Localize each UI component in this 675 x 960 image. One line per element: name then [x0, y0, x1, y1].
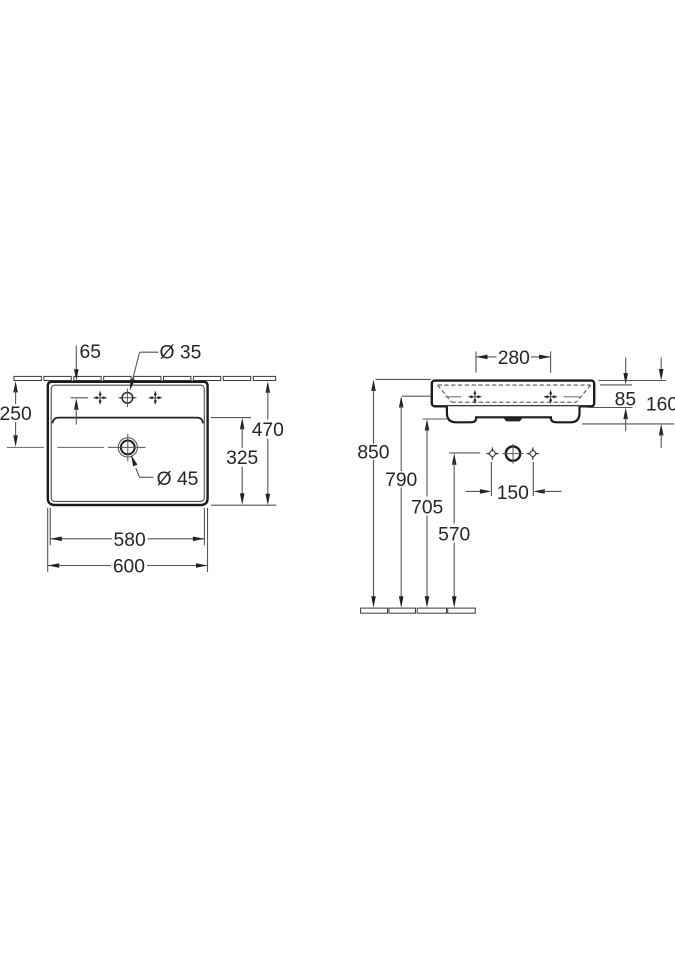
svg-text:580: 580 — [114, 530, 146, 551]
svg-text:Ø 35: Ø 35 — [160, 342, 202, 363]
drain hole Ø45 — [108, 434, 146, 462]
svg-text:65: 65 — [80, 342, 101, 363]
dimension 160 — [646, 358, 675, 449]
dimension 850 — [357, 379, 430, 607]
svg-text:325: 325 — [226, 448, 258, 469]
basin outer rim (top view) — [48, 382, 208, 505]
front view: basin rim band — [432, 381, 594, 407]
svg-text:160: 160 — [646, 395, 675, 416]
wall hatch (top view) — [14, 376, 276, 380]
dimension 705 — [411, 419, 446, 608]
front view: fixing hole cross right — [544, 390, 557, 403]
svg-text:150: 150 — [497, 483, 529, 504]
svg-text:Ø 45: Ø 45 — [157, 469, 199, 490]
dimension 470 — [211, 381, 284, 505]
dimension 325 — [211, 418, 258, 505]
drain centre line — [7, 446, 104, 448]
right side extension lines — [582, 381, 674, 424]
dimension 790 — [385, 396, 431, 608]
front view: pedestal foot — [447, 406, 580, 422]
dimension 250 — [0, 381, 32, 447]
dimension Ø45 leader — [129, 454, 199, 490]
front view: drain outlet bar — [503, 418, 522, 422]
basin inner rim (top view) — [51, 385, 204, 501]
dimension Ø35 leader — [128, 342, 202, 391]
svg-text:705: 705 — [411, 498, 443, 519]
front view: fixing holes centre line — [445, 396, 579, 398]
supply cross right — [526, 447, 539, 460]
svg-text:600: 600 — [113, 557, 145, 578]
svg-text:470: 470 — [252, 420, 284, 441]
floor hatch — [361, 608, 476, 613]
svg-text:280: 280 — [498, 348, 530, 369]
supply hole circle — [502, 444, 523, 464]
supply cross left — [486, 447, 499, 460]
dimension 570 — [438, 453, 480, 608]
bowl back ledge line — [53, 418, 203, 424]
front view: hidden bowl (dashed) — [438, 385, 591, 402]
dimension 580 — [50, 508, 204, 551]
tap hole circle Ø35 — [118, 389, 136, 407]
tap hole cross right — [149, 391, 162, 404]
front view: fixing hole cross left — [468, 390, 481, 403]
svg-text:570: 570 — [438, 525, 470, 546]
dimension 280 — [476, 348, 551, 373]
tap hole cross left — [94, 391, 107, 404]
dimension 65 — [71, 342, 101, 425]
dimension 150 — [466, 462, 562, 504]
dimension 85 — [615, 358, 636, 432]
dimension 600 — [48, 508, 208, 578]
svg-text:250: 250 — [0, 404, 32, 425]
